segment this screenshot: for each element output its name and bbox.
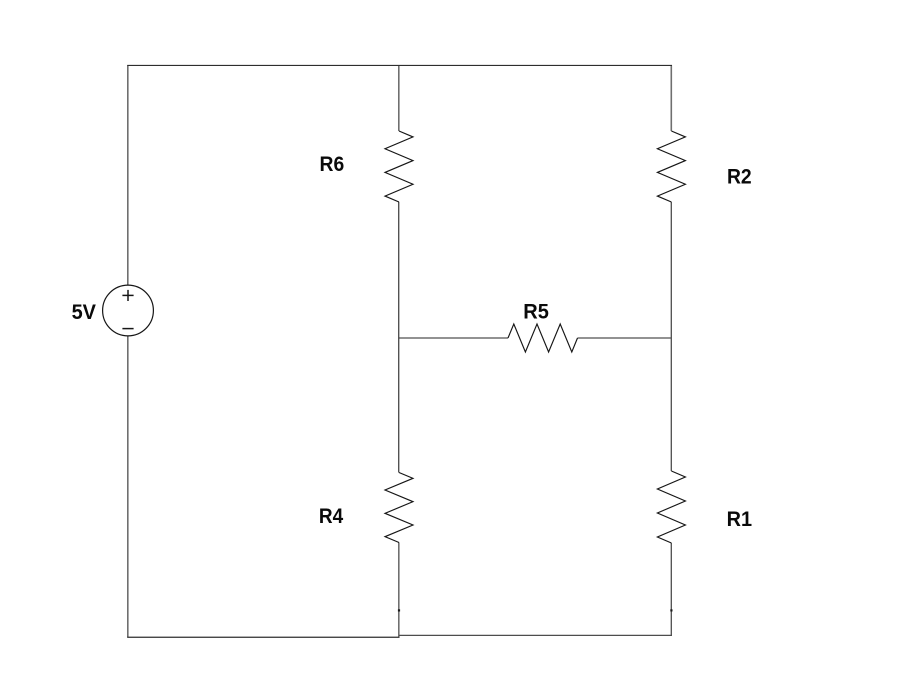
svg-text:R1: R1 bbox=[727, 508, 753, 531]
svg-text:R6: R6 bbox=[320, 153, 345, 176]
svg-text:5V: 5V bbox=[72, 301, 96, 324]
svg-text:R4: R4 bbox=[319, 505, 343, 528]
svg-text:R5: R5 bbox=[523, 300, 549, 323]
svg-text:R2: R2 bbox=[727, 166, 752, 189]
